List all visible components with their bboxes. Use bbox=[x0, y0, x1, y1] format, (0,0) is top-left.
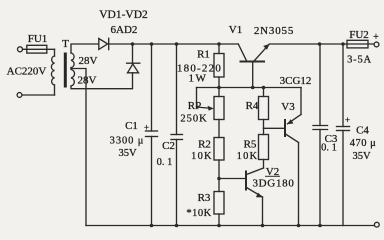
svg-text:R5: R5 bbox=[244, 139, 257, 151]
svg-text:C1: C1 bbox=[125, 120, 138, 132]
svg-text:10K: 10K bbox=[191, 151, 213, 162]
svg-text:+: + bbox=[373, 32, 379, 43]
svg-text:3DG180: 3DG180 bbox=[252, 178, 294, 190]
svg-text:FU1: FU1 bbox=[28, 33, 48, 45]
svg-text:3-5A: 3-5A bbox=[347, 55, 372, 66]
svg-text:6AD2: 6AD2 bbox=[111, 24, 138, 36]
svg-text:+: + bbox=[144, 123, 149, 133]
svg-text:35V: 35V bbox=[118, 148, 137, 159]
svg-text:C2: C2 bbox=[162, 140, 175, 152]
svg-text:R4: R4 bbox=[246, 100, 259, 112]
svg-text:28V: 28V bbox=[78, 75, 97, 87]
svg-text:C4: C4 bbox=[356, 125, 369, 137]
svg-text:R3: R3 bbox=[198, 192, 211, 204]
svg-text:470 μ: 470 μ bbox=[350, 138, 377, 149]
svg-text:2N3055: 2N3055 bbox=[254, 25, 294, 37]
svg-text:0. 1: 0. 1 bbox=[157, 157, 173, 168]
svg-text:0. 1: 0. 1 bbox=[321, 143, 337, 154]
svg-text:10K: 10K bbox=[237, 151, 259, 162]
svg-text:V3: V3 bbox=[281, 101, 295, 113]
svg-text:RP: RP bbox=[188, 100, 201, 112]
svg-text:1W: 1W bbox=[189, 73, 208, 85]
svg-text:R1: R1 bbox=[197, 49, 210, 61]
svg-text:35V: 35V bbox=[352, 151, 371, 162]
svg-text:AC220V: AC220V bbox=[7, 66, 47, 78]
svg-text:250K: 250K bbox=[180, 114, 207, 125]
svg-text:FU2: FU2 bbox=[349, 29, 369, 41]
svg-text:+: + bbox=[345, 115, 350, 125]
svg-text:*10K: *10K bbox=[186, 208, 211, 219]
svg-text:R2: R2 bbox=[198, 139, 211, 151]
svg-text:3CG12: 3CG12 bbox=[280, 75, 312, 87]
svg-text:VD1-VD2: VD1-VD2 bbox=[99, 9, 148, 21]
svg-text:3300 μ: 3300 μ bbox=[110, 136, 145, 147]
svg-text:T: T bbox=[62, 38, 69, 50]
svg-text:V1: V1 bbox=[229, 24, 242, 36]
svg-text:28V: 28V bbox=[79, 55, 98, 67]
